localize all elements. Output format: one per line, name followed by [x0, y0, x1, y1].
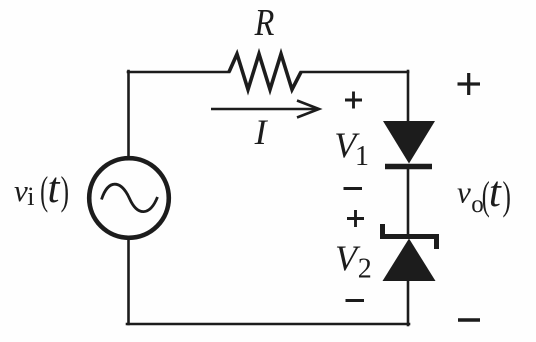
minus sign V2: [346, 299, 365, 302]
minus sign output: [458, 318, 480, 321]
svg-text:v: v: [457, 175, 471, 210]
label vi(t): [14, 165, 69, 214]
source vi circle: [89, 158, 169, 238]
source sine wave: [102, 184, 158, 211]
plus sign V1: [345, 92, 362, 109]
minus sign V1: [344, 187, 363, 190]
zener D2 triangle: [383, 239, 436, 282]
wire right vertical middle: [407, 167, 410, 235]
svg-text:t: t: [48, 165, 61, 212]
wire left vertical lower: [127, 240, 130, 324]
svg-text:): ): [503, 174, 511, 218]
label vo(t): [457, 169, 511, 219]
svg-text:2: 2: [358, 254, 372, 285]
label V1: [334, 125, 369, 172]
current arrow I: [211, 108, 317, 111]
diode D1 cathode bar: [385, 164, 432, 170]
svg-text:v: v: [14, 173, 28, 208]
wire right vertical upper: [407, 71, 410, 122]
svg-text:R: R: [254, 2, 275, 44]
svg-text:t: t: [489, 169, 502, 216]
wire bottom horizontal: [127, 323, 409, 326]
wire right vertical lower: [407, 280, 410, 325]
label V2: [335, 238, 372, 285]
diode D1 triangle: [383, 121, 435, 164]
wire left vertical upper: [127, 71, 130, 158]
zener D2 cathode bar: [383, 224, 437, 249]
plus sign output: [458, 73, 481, 95]
wire top-left horizontal: [128, 71, 229, 74]
plus sign V2: [347, 210, 364, 227]
svg-text:I: I: [254, 112, 269, 152]
resistor R: [229, 54, 301, 90]
svg-text:): ): [61, 169, 69, 213]
wire top-right horizontal: [301, 71, 408, 74]
svg-text:i: i: [27, 182, 34, 211]
svg-text:1: 1: [355, 141, 369, 172]
